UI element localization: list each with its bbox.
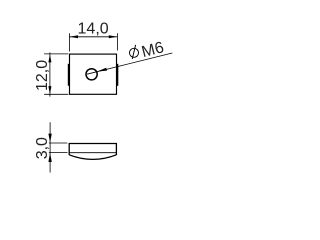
leader line to M6 label <box>87 53 172 74</box>
dim 12,0 bottom arrow <box>48 86 51 94</box>
leader arrowhead <box>97 68 107 72</box>
dim 12,0 extension line top <box>44 53 68 55</box>
dim 14,0 right arrow <box>109 35 117 38</box>
svg-text:3,0: 3,0 <box>34 137 51 159</box>
diameter symbol <box>130 45 139 59</box>
dim 3,0 bottom arrow (outside, pointing up) <box>48 153 51 162</box>
left flange edge (thick) <box>68 64 70 86</box>
dim 3,0 top arrow (outside, pointing down) <box>48 134 51 143</box>
M6 hole circle <box>86 69 97 80</box>
svg-text:14,0: 14,0 <box>78 21 109 38</box>
dim 3,0 dimension line (with overshoot) <box>49 122 51 172</box>
dim 14,0 extension line left <box>68 33 70 51</box>
dim 14,0 extension line right <box>116 33 118 50</box>
top view body outline <box>70 54 117 94</box>
side view inner edge line <box>69 152 116 154</box>
dim 12,0 top arrow <box>48 54 51 62</box>
svg-text:M6: M6 <box>140 39 166 61</box>
side view outline: top edge and sides <box>69 144 116 156</box>
dim 14,0 dimension line <box>70 36 118 38</box>
dim 12,0 dimension line <box>49 52 51 96</box>
side view bottom arc <box>69 155 116 160</box>
dim 12,0 extension line bottom <box>44 93 68 95</box>
dim 14,0 left arrow <box>70 35 78 38</box>
right flange edge (thick) <box>116 64 118 86</box>
dim 3,0 extension line bottom <box>49 152 68 154</box>
svg-text:12,0: 12,0 <box>34 60 51 91</box>
dim 3,0 extension line top <box>49 142 67 144</box>
